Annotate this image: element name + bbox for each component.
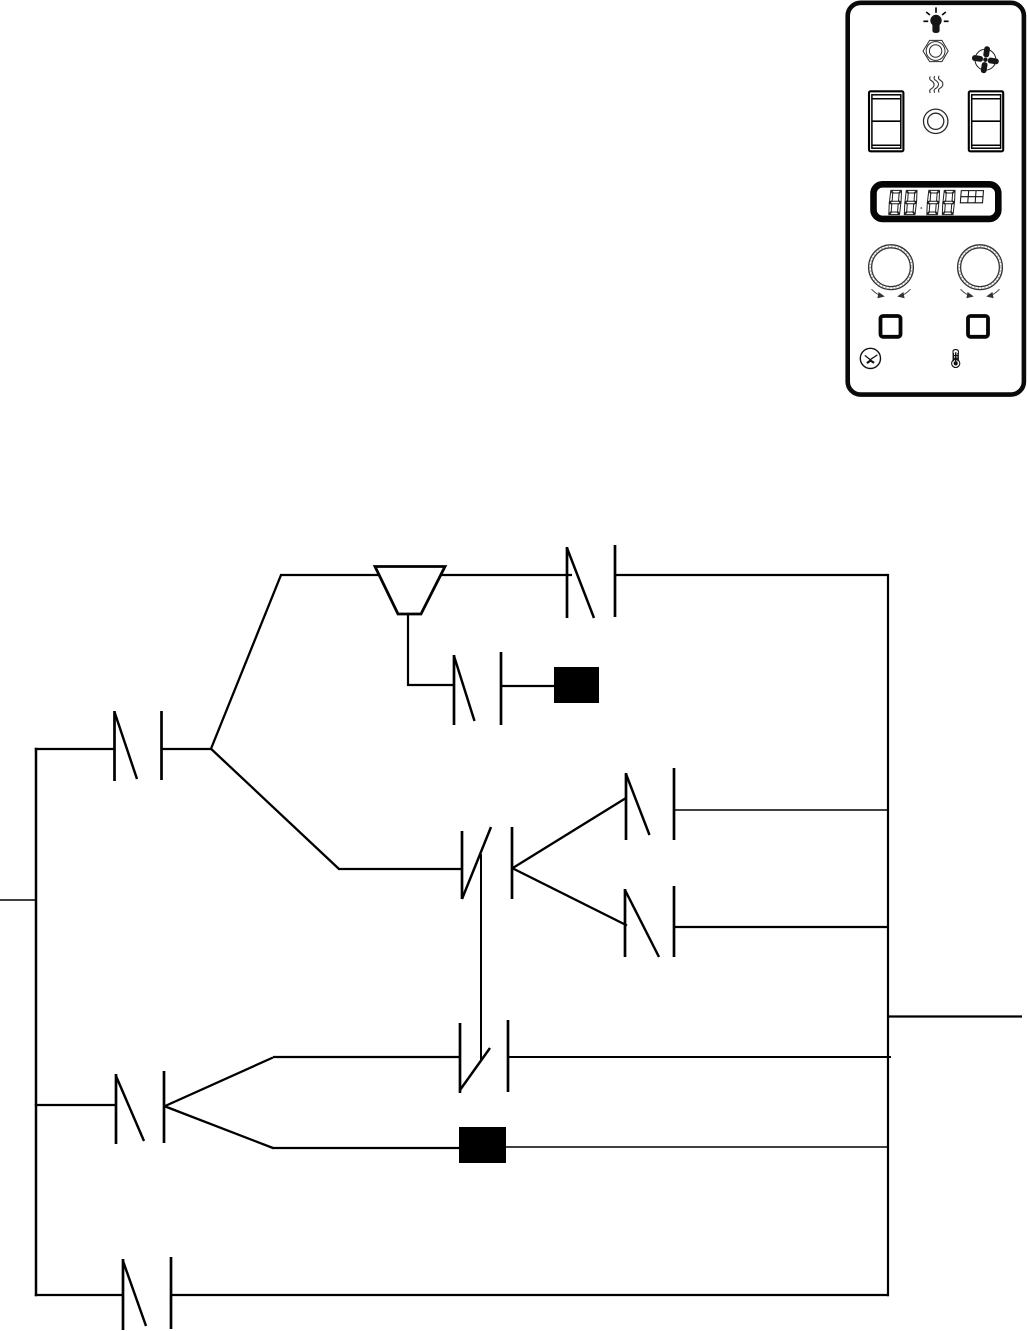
- wire (diagonal to buzzer row): [211, 575, 281, 750]
- knob left: [869, 245, 914, 290]
- wire (S6 lower branch): [164, 1106, 273, 1148]
- contact S7: [123, 1257, 171, 1330]
- wire: [506, 1146, 888, 1148]
- rocker switch left: [869, 91, 903, 151]
- contact S3: [454, 652, 501, 725]
- wire: [162, 748, 212, 750]
- connector block B2: [459, 1127, 506, 1163]
- rocker switch right: [969, 91, 1003, 151]
- buzzer (funnel): [375, 567, 445, 615]
- wire: [674, 926, 888, 928]
- clock icon: [860, 348, 880, 368]
- left input stub wire: [0, 899, 36, 901]
- hex nut icon: [923, 40, 948, 61]
- wire: [615, 574, 888, 576]
- contact S8: [626, 768, 674, 840]
- wire: [35, 1104, 116, 1106]
- wire (mechanical link): [480, 854, 482, 1060]
- indicator ring icon: [924, 109, 948, 133]
- button left: [881, 316, 901, 337]
- wire: [273, 1056, 460, 1058]
- display mini grid: [960, 191, 983, 203]
- right supply bus: [887, 574, 889, 1296]
- wire: [501, 685, 556, 687]
- panel outline: [848, 3, 1024, 395]
- wire: [508, 1056, 891, 1058]
- steam icon: [930, 76, 943, 93]
- wire (S4 lower branch): [512, 868, 627, 926]
- wire: [280, 574, 379, 576]
- wire (S6 upper branch): [164, 1058, 273, 1107]
- button right: [968, 316, 988, 337]
- wire: [441, 574, 572, 576]
- knob right: [958, 245, 1003, 290]
- right output stub wire: [888, 1015, 1022, 1017]
- contact S6: [116, 1071, 164, 1144]
- wire: [338, 868, 462, 870]
- contact S1: [115, 711, 162, 781]
- wire: [674, 809, 888, 811]
- changeover contact S4: [462, 827, 512, 899]
- fan icon: [972, 46, 1000, 74]
- left supply bus: [35, 748, 38, 1296]
- contact S2: [567, 545, 615, 618]
- contact S5: [460, 1020, 508, 1093]
- wire: [35, 1294, 123, 1296]
- thermometer icon: [952, 350, 960, 368]
- wire: [171, 1294, 889, 1296]
- wire (S4 upper branch): [512, 798, 626, 869]
- lamp icon: [923, 7, 948, 33]
- wire: [35, 748, 114, 750]
- connector block B1: [554, 667, 599, 703]
- contact S9: [625, 886, 674, 957]
- knob right pointer arrows: [961, 289, 1000, 298]
- wire (buzzer drop): [407, 613, 454, 686]
- wire (diagonal to centre row): [211, 749, 339, 870]
- CONTROL PANEL: [848, 3, 1024, 395]
- wire: [272, 1147, 459, 1149]
- 7-segment digits 88:88: [888, 190, 955, 214]
- knob left pointer arrows: [872, 289, 911, 298]
- display window: [874, 184, 999, 219]
